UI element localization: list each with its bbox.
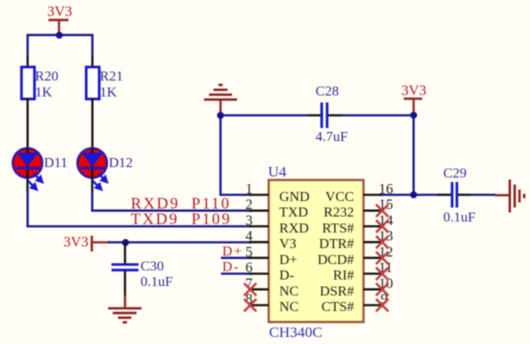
junction VCC node: [410, 191, 417, 198]
svg-text:3: 3: [245, 213, 252, 229]
pin 1 stub: [249, 194, 269, 196]
svg-text:1: 1: [245, 181, 252, 197]
power 3V3 top-right: [401, 83, 426, 113]
svg-text:R232: R232: [324, 206, 354, 221]
wire ground node down to pin1 row: [219, 115, 221, 195]
no-ERC X mark pin 15: [376, 204, 388, 216]
no-ERC X mark pin 7: [244, 283, 256, 295]
pin 15 stub: [364, 210, 383, 212]
junction 3V3 top-right node: [410, 112, 417, 119]
svg-text:C28: C28: [316, 85, 339, 100]
wire right branch to R21: [91, 34, 93, 58]
svg-text:RI#: RI#: [333, 269, 354, 284]
IC U4 CH340C body: [269, 180, 364, 322]
svg-text:4: 4: [245, 229, 253, 245]
pin 12 stub: [364, 257, 383, 259]
pin 7 stub: [249, 288, 269, 290]
ground earth bottom (below C30): [108, 295, 141, 322]
resistor R20: [22, 56, 59, 149]
pin 11 stub: [364, 273, 383, 275]
svg-text:R21: R21: [100, 70, 123, 85]
resistor R21: [86, 56, 123, 149]
svg-text:U4: U4: [268, 165, 287, 181]
wire D11 cathode to pin3: [28, 190, 252, 226]
pin 14 stub: [364, 225, 383, 227]
svg-text:3V3: 3V3: [64, 234, 89, 250]
power 3V3 top-left: [47, 4, 72, 35]
pin 10 stub: [364, 288, 383, 290]
pin 9 stub: [364, 304, 383, 306]
junction top-left node: [56, 32, 63, 39]
svg-text:3V3: 3V3: [401, 83, 426, 99]
svg-text:RXD9: RXD9: [131, 195, 180, 212]
pin 3 stub: [249, 225, 269, 227]
svg-text:6: 6: [245, 260, 252, 276]
svg-text:D11: D11: [44, 156, 68, 171]
svg-text:VCC: VCC: [325, 190, 354, 205]
capacitor C30: [112, 243, 174, 298]
junction ground node: [217, 112, 224, 119]
wire D- to pin6: [221, 273, 252, 275]
ground earth right (rotated): [495, 180, 524, 213]
svg-text:D+: D+: [279, 253, 297, 268]
svg-text:3V3: 3V3: [47, 4, 72, 20]
ground earth top (near C28): [204, 85, 237, 113]
power 3V3 bottom-left: [64, 234, 111, 251]
wire D+ to pin5: [221, 257, 252, 259]
LED D11: [13, 148, 68, 192]
svg-text:TXD: TXD: [279, 206, 308, 221]
no-ERC X mark pin 12: [376, 252, 388, 264]
pin 6 stub: [249, 273, 269, 275]
svg-text:1K: 1K: [35, 85, 52, 100]
svg-text:2: 2: [245, 197, 252, 213]
svg-text:V3: V3: [279, 237, 296, 252]
svg-text:DTR#: DTR#: [319, 237, 354, 252]
wire left branch to R20: [27, 34, 29, 58]
wire C28 right pin to 3V3 node: [340, 114, 414, 116]
svg-text:1K: 1K: [100, 85, 117, 100]
pin 8 stub: [249, 304, 269, 306]
svg-text:0.1uF: 0.1uF: [141, 275, 174, 290]
capacitor C28: [308, 85, 348, 146]
wire C29 to right ground: [470, 194, 496, 196]
junction C30 node: [122, 239, 129, 246]
wire 3V3 node down to VCC row: [413, 115, 415, 195]
no-ERC X mark pin 8: [244, 299, 256, 311]
wire to pin 1: [219, 194, 252, 196]
svg-text:16: 16: [379, 181, 394, 197]
wire D12 cathode to pin2: [92, 190, 252, 211]
svg-text:CH340C: CH340C: [269, 325, 322, 341]
no-ERC X mark pin 13: [376, 236, 388, 248]
wire VCC row: pin16 to C29: [380, 194, 440, 196]
svg-text:GND: GND: [279, 190, 309, 205]
svg-text:D-: D-: [279, 269, 294, 284]
svg-text:NC: NC: [279, 300, 298, 315]
svg-text:C30: C30: [141, 260, 164, 275]
no-ERC X mark pin 14: [376, 220, 388, 232]
svg-text:4.7uF: 4.7uF: [316, 130, 349, 145]
svg-text:D12: D12: [109, 156, 133, 171]
svg-text:DSR#: DSR#: [320, 284, 354, 299]
no-ERC X mark pin 10: [376, 283, 388, 295]
pin 16 stub: [364, 194, 383, 196]
svg-text:R20: R20: [35, 70, 58, 85]
pin 4 stub: [249, 241, 269, 243]
svg-text:RTS#: RTS#: [322, 221, 354, 236]
svg-text:CTS#: CTS#: [321, 300, 354, 315]
svg-text:C29: C29: [443, 167, 466, 182]
wire 3V3 to pin4: [108, 241, 252, 243]
pin 13 stub: [364, 241, 383, 243]
svg-text:P109: P109: [191, 211, 231, 228]
svg-text:TXD9: TXD9: [131, 211, 179, 228]
svg-text:P110: P110: [191, 195, 231, 212]
pin 5 stub: [249, 257, 269, 259]
no-ERC X mark pin 11: [376, 268, 388, 280]
no-ERC X mark pin 9: [376, 299, 388, 311]
capacitor C29: [438, 167, 476, 226]
svg-text:NC: NC: [279, 284, 298, 299]
LED D12: [77, 148, 132, 192]
svg-text:RXD: RXD: [279, 221, 309, 236]
wire ground node to C28 left pin: [221, 114, 310, 116]
svg-text:5: 5: [245, 244, 252, 260]
svg-text:DCD#: DCD#: [317, 253, 354, 268]
pin 2 stub: [249, 210, 269, 212]
wire top branch horizontal: [28, 34, 93, 36]
svg-text:0.1uF: 0.1uF: [443, 211, 476, 226]
